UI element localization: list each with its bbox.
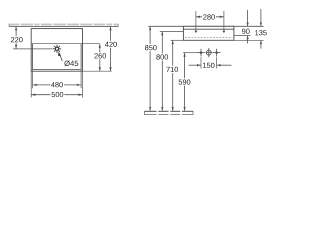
dimension 500 (overall width) [31, 94, 82, 96]
dimension 480 (bowl width) [33, 84, 82, 86]
dimension 260 (front edge to bowl back) [99, 44, 101, 71]
washbasin outer rect (plan view) [31, 29, 82, 72]
washbasin body (front view) [183, 26, 234, 40]
floor band [145, 111, 194, 114]
dimension 280 (fixing hole distance) [196, 16, 224, 18]
supply valve right [215, 51, 218, 54]
dimension 90 [247, 10, 249, 26]
rim lower edge (front view) [183, 28, 234, 30]
dimension 590 (drain height) [184, 53, 186, 78]
fixing hole right [223, 30, 225, 32]
hidden bottom edge (dashed) [185, 36, 232, 38]
dimension 800 (fixing holes height) [161, 32, 163, 54]
drain outlet [206, 50, 211, 55]
extension lines below basin (480/500) [30, 71, 32, 97]
tap hole centre extension line (220 ref) [13, 48, 53, 50]
supply valve left [200, 51, 203, 54]
dimension 135 [260, 9, 262, 26]
dimension 850 (rim height) [149, 27, 151, 44]
leader line with arrow to hole label [59, 54, 62, 62]
bowl back edge / 260 extension line [31, 43, 100, 45]
fixing hole left [195, 30, 197, 32]
right extension lines (90/135) [234, 35, 251, 37]
280 extension lines [195, 11, 197, 30]
dimension 420 (wall to front edge) [110, 27, 112, 71]
inner bowl edges (plan view) [32, 44, 34, 70]
tap hole symbol [55, 47, 58, 50]
wall band (plan view) [9, 24, 118, 26]
dimension 220 (wall to tap hole) [15, 27, 17, 36]
top reference line (850 / 90 / 135) [148, 25, 263, 27]
dimension 710 (underside height) [172, 41, 174, 66]
extension of basin bottom edge (420/260 ref) [83, 70, 112, 72]
hole diameter label Ø45 [64, 61, 78, 67]
dimension 150 (valve distance) [200, 57, 202, 68]
height extension lines [160, 30, 184, 32]
